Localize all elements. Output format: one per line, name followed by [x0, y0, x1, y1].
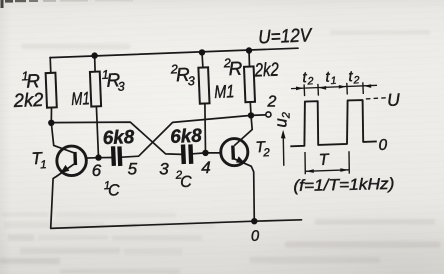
waveform dimension tick t1 end — [346, 83, 349, 95]
wire 2C to node 4 — [193, 152, 206, 155]
waveform T period dimension line — [305, 170, 349, 172]
svg-text:U=12V: U=12V — [258, 25, 314, 48]
svg-text:1: 1 — [40, 159, 47, 171]
label 2C — [175, 169, 193, 191]
svg-text:0: 0 — [378, 137, 388, 154]
waveform T dimension arrow right — [340, 168, 348, 172]
terminal node 2 open circle — [266, 112, 271, 117]
wire 2R3 top lead — [201, 52, 204, 67]
svg-text:M1: M1 — [71, 88, 90, 109]
transistor T1 circle — [57, 146, 87, 176]
svg-text:6k8: 6k8 — [170, 126, 203, 148]
svg-text:(f=1/T=1kHz): (f=1/T=1kHz) — [293, 176, 394, 195]
waveform dimension arrow right at third tick — [339, 85, 347, 89]
waveform dimension tick t start — [303, 84, 306, 96]
wire T2 collector output to node 2 — [251, 114, 265, 117]
svg-text:3: 3 — [159, 159, 169, 178]
waveform dashed U level — [366, 98, 386, 99]
wire B 1C node 5 cross-coupling to T2 collector — [122, 115, 251, 157]
svg-text:6: 6 — [92, 161, 102, 180]
label T1 — [31, 149, 47, 172]
waveform T period dimension tick left — [304, 152, 306, 174]
label t2 first — [302, 69, 314, 88]
waveform dimension arrow left at fourth tick — [364, 84, 372, 88]
transistor T2 emitter arrow — [236, 156, 245, 163]
svg-text:u: u — [273, 118, 291, 127]
svg-text:U: U — [387, 89, 401, 110]
junction dot node 4 — [202, 150, 208, 156]
label 2R — [223, 56, 243, 81]
wire A T1 collector cross-coupling to 2C — [51, 122, 181, 154]
junction dot 1R3 top rail — [91, 52, 97, 58]
transistor T2 base bar — [231, 145, 235, 159]
label 1C — [104, 180, 121, 200]
junction dot 2R top rail — [246, 47, 252, 53]
transistor T2 collector lead — [234, 115, 252, 145]
transistor T1 base bar — [73, 152, 77, 165]
waveform dimension arrow right at first tick — [296, 87, 304, 91]
resistor 1R3 — [90, 72, 101, 107]
waveform dimension tick t1 start — [317, 84, 320, 96]
svg-text:5: 5 — [128, 159, 138, 178]
label t2 second — [348, 68, 360, 87]
label t1 — [325, 68, 337, 87]
svg-text:4: 4 — [201, 158, 210, 177]
svg-text:6k8: 6k8 — [102, 127, 135, 149]
wire 2R bottom lead — [249, 102, 252, 115]
wire T2 base — [206, 152, 232, 154]
resistor 1R — [46, 73, 57, 108]
wire 1R3 bottom lead to node 6 — [96, 106, 98, 157]
svg-text:T: T — [318, 152, 330, 169]
svg-text:2: 2 — [352, 74, 360, 86]
svg-text:C: C — [180, 174, 193, 191]
capacitor 1C plates — [111, 146, 122, 166]
wire 2R top lead — [248, 51, 251, 67]
transistor T2 emitter lead to 0 rail — [234, 159, 254, 222]
junction dot node 6 — [95, 154, 101, 160]
wire top supply rail U — [50, 48, 298, 57]
transistor T2 circle — [221, 139, 248, 166]
label T2 — [255, 139, 271, 160]
wire bottom rail 0 — [51, 220, 302, 229]
wire node 6 to 1C — [99, 157, 112, 159]
wire 1R top lead — [49, 58, 52, 74]
junction dot T2 collector node — [248, 112, 254, 118]
svg-text:2k2: 2k2 — [254, 60, 280, 82]
svg-text:C: C — [108, 182, 121, 199]
page bleed-through ghost text top-left cut line — [1, 0, 134, 8]
wire T1 base — [76, 157, 99, 160]
waveform dimension arrow left at second tick — [319, 86, 327, 90]
junction dot T1 collector node — [48, 120, 54, 126]
junction dot bottom rail T2 emitter — [251, 218, 257, 224]
label 1R3 — [102, 67, 126, 94]
svg-text:3: 3 — [117, 79, 125, 93]
svg-text:0: 0 — [250, 227, 260, 245]
wire 1R bottom lead — [50, 107, 52, 123]
waveform t dimension line — [291, 85, 377, 88]
svg-text:2: 2 — [267, 94, 277, 111]
waveform T dimension arrow left — [306, 169, 314, 173]
label 1R — [21, 69, 40, 93]
label 2R3 — [170, 62, 196, 89]
wire 1R3 top lead — [94, 56, 97, 72]
svg-text:2k2: 2k2 — [12, 90, 44, 112]
waveform T period dimension tick right — [348, 151, 350, 173]
resistor 2R3 — [198, 67, 209, 103]
svg-text:M1: M1 — [214, 81, 235, 102]
capacitor 2C plates — [181, 144, 194, 164]
wire 2R3 bottom lead to node 4 — [204, 104, 207, 153]
svg-text:2: 2 — [306, 75, 314, 87]
transistor T1 emitter lead to 0 rail — [51, 164, 74, 229]
waveform dimension tick t2 end — [362, 82, 365, 94]
transistor T1 collector lead from junction — [51, 123, 74, 153]
svg-text:2: 2 — [262, 147, 270, 159]
junction dot 2R3 top rail — [199, 49, 205, 55]
svg-text:2: 2 — [281, 112, 293, 119]
resistor 2R — [244, 66, 255, 102]
transistor T1 emitter arrow — [60, 165, 69, 173]
u2 axis arrow — [282, 138, 285, 166]
svg-text:R: R — [228, 59, 243, 81]
svg-text:3: 3 — [188, 74, 196, 88]
label u2 axis — [273, 112, 293, 127]
waveform u2 square wave trace — [290, 100, 377, 146]
svg-text:1: 1 — [330, 75, 336, 87]
